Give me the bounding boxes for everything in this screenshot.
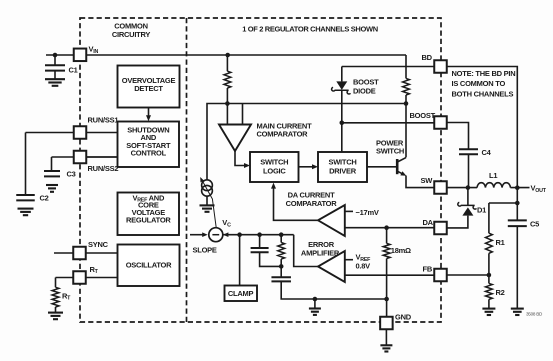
svg-text:DETECT: DETECT xyxy=(134,84,163,93)
svg-text:C4: C4 xyxy=(482,148,492,157)
svg-text:CONTROL: CONTROL xyxy=(131,148,167,157)
svg-text:REGULATOR: REGULATOR xyxy=(126,215,171,224)
svg-text:LOGIC: LOGIC xyxy=(263,166,286,175)
svg-text:R1: R1 xyxy=(496,238,505,247)
svg-text:SYNC: SYNC xyxy=(88,240,109,249)
svg-text:CLAMP: CLAMP xyxy=(228,289,254,298)
svg-text:SLOPE: SLOPE xyxy=(193,246,217,255)
svg-text:OSCILLATOR: OSCILLATOR xyxy=(126,260,172,269)
svg-text:DRIVER: DRIVER xyxy=(329,166,357,175)
svg-text:3508 BD: 3508 BD xyxy=(526,312,543,317)
svg-text:BOOST: BOOST xyxy=(353,78,379,87)
svg-text:RUN/SS2: RUN/SS2 xyxy=(88,164,119,173)
svg-text:COMPARATOR: COMPARATOR xyxy=(257,130,309,139)
svg-text:SWITCH: SWITCH xyxy=(376,146,404,155)
svg-text:SWITCH: SWITCH xyxy=(328,157,356,166)
svg-text:BOTH CHANNELS: BOTH CHANNELS xyxy=(452,90,514,99)
svg-text:GND: GND xyxy=(395,312,412,321)
svg-text:DA: DA xyxy=(423,218,434,227)
svg-text:C5: C5 xyxy=(530,220,539,229)
svg-text:1 OF 2 REGULATOR CHANNELS SHOW: 1 OF 2 REGULATOR CHANNELS SHOWN xyxy=(242,25,378,34)
svg-text:RUN/SS1: RUN/SS1 xyxy=(88,116,119,125)
svg-text:AMPLIFIER: AMPLIFIER xyxy=(301,248,340,257)
svg-text:SWITCH: SWITCH xyxy=(260,157,288,166)
svg-text:0.8V: 0.8V xyxy=(356,261,371,270)
svg-text:L1: L1 xyxy=(489,171,497,180)
svg-text:R2: R2 xyxy=(496,288,505,297)
svg-text:COMPARATOR: COMPARATOR xyxy=(286,199,338,208)
svg-text:FB: FB xyxy=(423,265,433,274)
svg-text:C3: C3 xyxy=(67,169,76,178)
svg-text:COMMON: COMMON xyxy=(114,22,148,31)
svg-text:D1: D1 xyxy=(477,206,486,215)
svg-text:C2: C2 xyxy=(40,194,49,203)
svg-text:SW: SW xyxy=(421,176,434,185)
svg-text:BOOST: BOOST xyxy=(410,111,436,120)
svg-text:NOTE: THE BD PIN: NOTE: THE BD PIN xyxy=(452,69,516,78)
svg-text:IS COMMON TO: IS COMMON TO xyxy=(452,79,506,88)
svg-text:CIRCUITRY: CIRCUITRY xyxy=(112,30,151,39)
svg-text:C1: C1 xyxy=(69,66,78,75)
svg-text:DIODE: DIODE xyxy=(353,87,376,96)
svg-text:BD: BD xyxy=(422,53,433,62)
svg-text:18mΩ: 18mΩ xyxy=(391,246,411,255)
svg-text:−17mV: −17mV xyxy=(356,208,379,217)
